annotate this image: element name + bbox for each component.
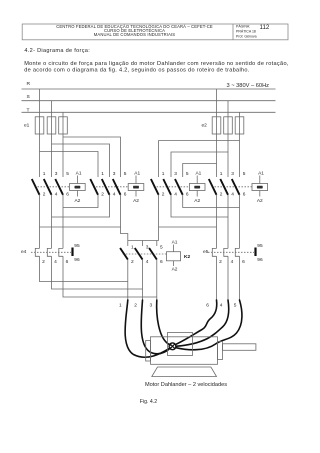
motor body bbox=[146, 337, 218, 365]
supply label 3~380V 60Hz bbox=[227, 83, 270, 89]
motor shaft bbox=[218, 342, 256, 360]
svg-text:A1: A1 bbox=[195, 170, 201, 176]
svg-text:5: 5 bbox=[124, 171, 127, 177]
svg-text:3: 3 bbox=[55, 171, 58, 177]
header page info bbox=[236, 24, 270, 38]
svg-text:A2: A2 bbox=[257, 198, 263, 204]
contactor coil K1 A1 A2 bbox=[70, 170, 86, 203]
svg-text:4: 4 bbox=[146, 259, 149, 265]
bus T L3 bbox=[22, 108, 276, 114]
wire K4 pin6 to star bar bbox=[121, 227, 128, 241]
svg-text:A1: A1 bbox=[172, 239, 178, 245]
svg-text:A2: A2 bbox=[133, 198, 139, 204]
wire K5 pin2 to star bar bbox=[158, 227, 160, 241]
wire e1 phase2 down bbox=[51, 134, 53, 177]
fuse group e2 bbox=[202, 117, 244, 134]
wire T drop to e2 bbox=[239, 112, 241, 117]
wire branch S to K5 pin3 bbox=[171, 152, 228, 177]
svg-text:6: 6 bbox=[160, 259, 163, 265]
wire T drop to e1 bbox=[62, 112, 64, 117]
svg-text:e4: e4 bbox=[21, 249, 27, 255]
svg-text:de acordo com o diagrama da fi: de acordo com o diagrama da fig. 4.2, se… bbox=[24, 67, 250, 73]
wire K5 pin6 to e5 col3 bbox=[183, 195, 240, 208]
wire lead1 down bbox=[127, 260, 129, 301]
bus S L2 bbox=[22, 94, 276, 101]
svg-text:2: 2 bbox=[219, 259, 222, 265]
svg-text:4: 4 bbox=[174, 191, 177, 197]
svg-text:A2: A2 bbox=[74, 198, 80, 204]
svg-text:6: 6 bbox=[186, 191, 189, 197]
svg-text:R: R bbox=[27, 81, 31, 87]
svg-text:112: 112 bbox=[260, 24, 270, 31]
contactor K3 main contacts bbox=[209, 171, 252, 197]
svg-text:A2: A2 bbox=[172, 267, 178, 273]
paragraph bbox=[24, 61, 289, 73]
wire e2 phase2 down bbox=[227, 134, 229, 177]
svg-text:4: 4 bbox=[220, 303, 223, 309]
wire lead3 down bbox=[156, 260, 158, 301]
svg-text:5: 5 bbox=[243, 171, 246, 177]
svg-text:PÁGINA:: PÁGINA: bbox=[236, 25, 250, 29]
wire K5 pin2 to e5 col1 bbox=[159, 195, 217, 227]
contactor K5 main contacts bbox=[151, 171, 190, 197]
wire K4 pin2 to T column bbox=[63, 195, 98, 208]
wire K4 pin6 to R column bbox=[40, 195, 121, 227]
svg-text:e1: e1 bbox=[24, 123, 30, 129]
overload relay e4 bbox=[21, 243, 80, 265]
wire e1 phase3 down bbox=[62, 134, 64, 177]
svg-text:6: 6 bbox=[66, 259, 69, 265]
wire cable lead4 to motor bbox=[177, 300, 229, 346]
wire cable lead5 to motor bbox=[177, 300, 242, 350]
wire lead4 down bbox=[227, 256, 229, 300]
wire e4 out2 to lead2 bbox=[52, 256, 143, 289]
svg-text:4: 4 bbox=[113, 191, 116, 197]
svg-text:2: 2 bbox=[134, 303, 137, 309]
svg-text:e5: e5 bbox=[203, 249, 209, 255]
contactor K4 main contacts bbox=[90, 171, 128, 197]
contactor coil K5 A1 A2 bbox=[189, 170, 205, 203]
node cable knot bbox=[169, 343, 176, 350]
svg-text:K2: K2 bbox=[184, 254, 190, 260]
svg-text:Motor Dahlander – 2 velocidade: Motor Dahlander – 2 velocidades bbox=[145, 382, 227, 388]
svg-text:3: 3 bbox=[231, 171, 234, 177]
wire e1 phase1 down bbox=[39, 134, 41, 177]
svg-text:2: 2 bbox=[43, 191, 46, 197]
wire K1 pin6 to e4 bbox=[62, 195, 64, 249]
wire branch R to K5 pin5 bbox=[183, 164, 217, 178]
svg-text:6: 6 bbox=[242, 259, 245, 265]
wire branch T to K4 pin5 bbox=[63, 137, 121, 177]
node star bar bbox=[128, 240, 159, 242]
wire cable lead3 to motor bbox=[157, 300, 171, 345]
wire cable lead2 to motor bbox=[141, 300, 170, 354]
svg-text:1: 1 bbox=[162, 171, 165, 177]
contactor coil K4 A1 A2 bbox=[128, 170, 144, 203]
wire S drop to e1 bbox=[51, 101, 53, 117]
svg-text:3: 3 bbox=[150, 303, 153, 309]
contactor coil K2 bbox=[167, 239, 191, 272]
caption motor bbox=[145, 382, 227, 388]
svg-text:4: 4 bbox=[231, 259, 234, 265]
bus R L1 bbox=[22, 81, 276, 89]
svg-text:Monte o circuito de força para: Monte o circuito de força para ligação d… bbox=[24, 61, 289, 67]
svg-text:3: 3 bbox=[146, 245, 149, 251]
svg-text:e2: e2 bbox=[202, 123, 208, 129]
svg-text:6: 6 bbox=[124, 191, 127, 197]
svg-text:4: 4 bbox=[231, 191, 234, 197]
wire e4 out3 to lead3 bbox=[63, 256, 157, 297]
fuse group e1 bbox=[24, 117, 67, 134]
svg-text:1: 1 bbox=[119, 303, 122, 309]
svg-text:1: 1 bbox=[43, 171, 46, 177]
svg-text:MANUAL DE COMANDOS INDUSTRIAIS: MANUAL DE COMANDOS INDUSTRIAIS bbox=[94, 32, 175, 37]
overload relay e5 bbox=[203, 243, 263, 265]
svg-text:1: 1 bbox=[131, 245, 134, 251]
svg-text:5: 5 bbox=[186, 171, 189, 177]
wire K3 pin2 to e5 bbox=[216, 195, 218, 249]
wire K4 pin4 to S column bbox=[52, 195, 110, 217]
svg-text:S: S bbox=[27, 94, 31, 100]
wire K1 pin4 to e4 bbox=[51, 195, 53, 249]
svg-text:96: 96 bbox=[74, 257, 80, 263]
wire e2 phase3 down bbox=[239, 134, 241, 177]
wire lead5 down bbox=[239, 256, 241, 300]
svg-text:6: 6 bbox=[206, 303, 209, 309]
wire branch T to K5 pin1 bbox=[159, 141, 240, 178]
contactor coil K3 A1 A2 bbox=[252, 170, 268, 203]
svg-text:96: 96 bbox=[257, 257, 263, 263]
node lead labels 1 2 3 bbox=[119, 303, 153, 309]
svg-text:2: 2 bbox=[101, 191, 104, 197]
svg-text:A1: A1 bbox=[258, 170, 264, 176]
svg-text:6: 6 bbox=[66, 191, 69, 197]
wire cable lead6 to motor bbox=[176, 300, 217, 344]
svg-text:A2: A2 bbox=[194, 198, 200, 204]
svg-text:2: 2 bbox=[131, 259, 134, 265]
svg-text:5: 5 bbox=[234, 303, 237, 309]
wire R drop to e2 bbox=[216, 89, 218, 117]
svg-text:Prof. Gênova: Prof. Gênova bbox=[236, 34, 257, 38]
wire cable lead1 to motor bbox=[125, 300, 169, 357]
svg-text:4: 4 bbox=[55, 191, 58, 197]
motor base bbox=[152, 367, 217, 377]
svg-text:1: 1 bbox=[101, 171, 104, 177]
wire S drop to e2 bbox=[227, 101, 229, 117]
wire lead2 down bbox=[142, 260, 144, 301]
svg-text:3: 3 bbox=[174, 171, 177, 177]
contactor K1 main contacts bbox=[32, 171, 70, 197]
svg-text:PRÁTICA 18: PRÁTICA 18 bbox=[236, 29, 256, 33]
wire e4 out1 to lead1 bbox=[40, 256, 128, 281]
svg-text:3 ~ 380V – 60Hz: 3 ~ 380V – 60Hz bbox=[227, 83, 270, 89]
wire R drop to e1 bbox=[39, 89, 41, 117]
wire K5 pin4 to e5 col2 bbox=[171, 195, 228, 217]
svg-text:4.2- Diagrama de força:: 4.2- Diagrama de força: bbox=[24, 48, 90, 54]
wire branch R to K4 pin1 bbox=[40, 152, 99, 178]
svg-text:1: 1 bbox=[220, 171, 223, 177]
svg-text:2: 2 bbox=[42, 259, 45, 265]
svg-text:2: 2 bbox=[162, 191, 165, 197]
wire branch S to K4 pin3 bbox=[52, 144, 110, 177]
svg-text:Fig. 4.2: Fig. 4.2 bbox=[140, 399, 157, 405]
wire lead6 down bbox=[216, 256, 218, 300]
motor terminal box bbox=[168, 333, 193, 356]
node lead labels 6 4 5 bbox=[206, 303, 237, 309]
contactor K2 star contacts bbox=[120, 241, 166, 265]
header table frame bbox=[22, 24, 288, 40]
svg-text:95: 95 bbox=[74, 243, 80, 249]
wire K3 pin4 to e5 bbox=[227, 195, 229, 249]
wire K3 pin6 to e5 bbox=[239, 195, 241, 249]
svg-text:5: 5 bbox=[66, 171, 69, 177]
svg-text:3: 3 bbox=[113, 171, 116, 177]
svg-text:A1: A1 bbox=[76, 170, 82, 176]
caption figure bbox=[140, 399, 157, 405]
wire e2 phase1 down bbox=[216, 134, 218, 177]
svg-text:A1: A1 bbox=[134, 170, 140, 176]
section title bbox=[24, 48, 90, 54]
svg-text:5: 5 bbox=[160, 245, 163, 251]
wire K1 pin2 to e4 bbox=[39, 195, 41, 249]
svg-text:95: 95 bbox=[257, 243, 263, 249]
header institution text bbox=[56, 24, 213, 37]
svg-text:2: 2 bbox=[220, 191, 223, 197]
svg-text:6: 6 bbox=[243, 191, 246, 197]
svg-text:4: 4 bbox=[54, 259, 57, 265]
